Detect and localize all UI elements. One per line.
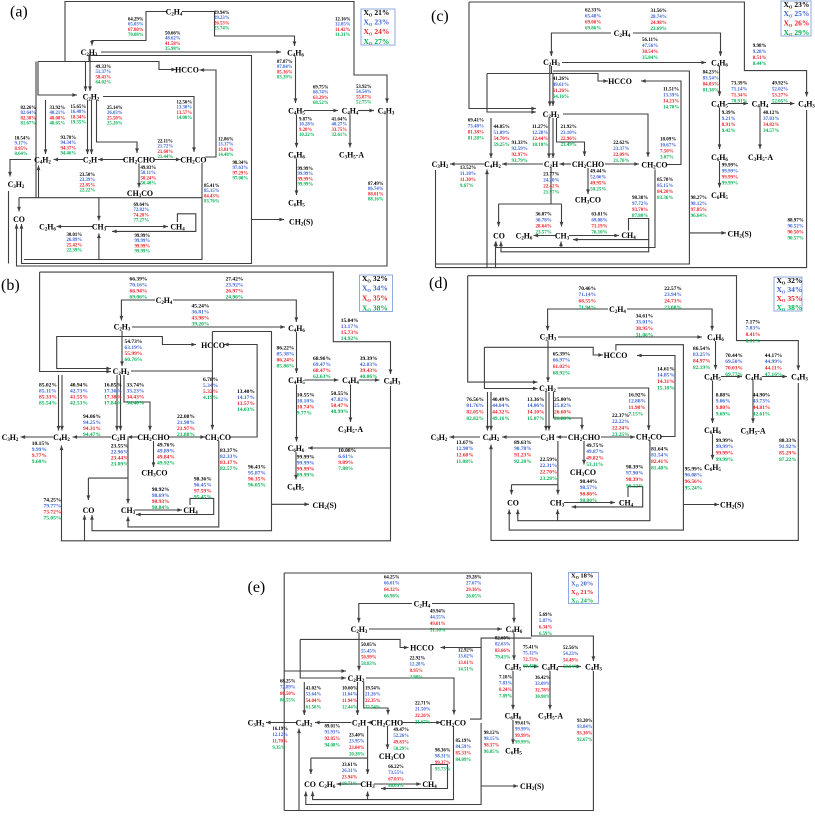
- svg-text:52.06%: 52.06%: [590, 176, 606, 181]
- svg-text:99.99%: 99.99%: [716, 451, 734, 457]
- svg-text:16.92%: 16.92%: [628, 392, 646, 398]
- svg-text:71.14%: 71.14%: [731, 88, 747, 93]
- svg-text:CH2​CO: CH2​CO: [641, 160, 667, 170]
- svg-text:99.99%: 99.99%: [722, 182, 738, 187]
- wire d6: [548, 309, 608, 331]
- svg-text:14.51%: 14.51%: [458, 668, 474, 673]
- wire b32: [296, 332, 298, 373]
- svg-text:83.25%: 83.25%: [693, 352, 711, 358]
- svg-text:40.12%: 40.12%: [763, 111, 779, 116]
- svg-text:44.99%: 44.99%: [765, 359, 783, 365]
- svg-text:25.82%: 25.82%: [554, 403, 572, 409]
- svg-text:69.08%: 69.08%: [591, 219, 607, 224]
- svg-text:69.86%: 69.86%: [585, 27, 601, 32]
- svg-text:CH4​: CH4​: [170, 222, 185, 232]
- svg-text:CH2​(S): CH2​(S): [289, 217, 313, 227]
- svg-text:XO​ 32%: XO​ 32%: [362, 274, 388, 283]
- svg-text:11.31%: 11.31%: [335, 33, 351, 38]
- wire c39: [771, 103, 795, 105]
- svg-text:CH3​CO: CH3​CO: [127, 189, 153, 199]
- svg-text:17.84%: 17.84%: [104, 400, 122, 406]
- svg-text:99.99%: 99.99%: [135, 239, 151, 244]
- svg-text:44.81%: 44.81%: [753, 405, 771, 411]
- svg-text:23.10%: 23.10%: [561, 131, 577, 136]
- wire c18: [552, 118, 554, 158]
- panel (b): [1, 272, 401, 541]
- wire e36: [512, 671, 514, 710]
- svg-text:13.39%: 13.39%: [663, 94, 679, 99]
- svg-text:14.31%: 14.31%: [657, 379, 675, 385]
- wire c19: [490, 118, 492, 158]
- svg-text:(b): (b): [1, 277, 20, 294]
- svg-text:CH4​: CH4​: [422, 780, 437, 790]
- svg-text:C4​H5​: C4​H5​: [704, 372, 721, 382]
- svg-text:72.73%: 72.73%: [523, 658, 539, 663]
- svg-text:14.85%: 14.85%: [657, 373, 675, 379]
- wire a39: [296, 159, 298, 196]
- svg-text:C3​H2​: C3​H2​: [8, 180, 25, 190]
- svg-text:98.12%: 98.12%: [484, 731, 500, 736]
- svg-text:26.60%: 26.60%: [554, 410, 572, 416]
- svg-text:15.07%: 15.07%: [527, 416, 545, 422]
- svg-text:85.33%: 85.33%: [456, 752, 472, 757]
- svg-text:CH2​CO: CH2​CO: [180, 155, 206, 165]
- svg-text:22.42%: 22.42%: [543, 185, 559, 190]
- svg-text:23.94%: 23.94%: [664, 292, 682, 298]
- wire d26: [557, 485, 559, 495]
- svg-text:12.98%: 12.98%: [456, 446, 474, 452]
- svg-text:11.70%: 11.70%: [272, 740, 288, 745]
- svg-text:64.32%: 64.32%: [384, 588, 400, 593]
- svg-text:56.11%: 56.11%: [642, 38, 658, 43]
- svg-text:XO​ 25%: XO​ 25%: [784, 9, 810, 18]
- wire b8: [121, 300, 155, 321]
- svg-text:C6​H6​: C6​H6​: [505, 711, 522, 721]
- wire e14: [481, 785, 518, 787]
- wire c12: [552, 74, 554, 107]
- svg-text:35.98%: 35.98%: [165, 47, 181, 52]
- svg-text:9.60%: 9.60%: [32, 459, 47, 465]
- svg-text:68.55%: 68.55%: [579, 299, 597, 305]
- wire c21: [557, 118, 585, 156]
- svg-text:XO​ 20%: XO​ 20%: [571, 581, 593, 588]
- wire e24: [367, 726, 369, 758]
- wire e35: [558, 666, 581, 668]
- svg-text:97.63%: 97.63%: [233, 166, 249, 171]
- svg-text:99.37%: 99.37%: [435, 761, 451, 766]
- svg-text:87.84%: 87.84%: [277, 65, 293, 70]
- wire e15: [366, 678, 454, 715]
- svg-text:24.96%: 24.96%: [226, 294, 244, 300]
- wire d16: [490, 392, 492, 431]
- svg-text:49.95%: 49.95%: [590, 182, 606, 187]
- svg-text:44.17%: 44.17%: [765, 353, 783, 359]
- wire b14: [131, 370, 212, 372]
- svg-text:96.85%: 96.85%: [484, 750, 500, 755]
- wire d3: [484, 347, 603, 355]
- svg-text:81.28%: 81.28%: [468, 137, 484, 142]
- svg-text:34.57%: 34.57%: [763, 129, 779, 134]
- svg-text:CH3​CO: CH3​CO: [379, 752, 405, 762]
- svg-text:65.39%: 65.39%: [553, 351, 571, 357]
- svg-text:62.63%: 62.63%: [313, 374, 331, 380]
- svg-text:33.61%: 33.61%: [342, 763, 358, 768]
- svg-text:9.80%: 9.80%: [716, 405, 731, 411]
- wire e1: [283, 573, 285, 811]
- wire a23: [54, 159, 84, 161]
- svg-text:XO​ 24%: XO​ 24%: [571, 597, 593, 604]
- wire d31: [715, 341, 717, 370]
- svg-text:23.40%: 23.40%: [349, 733, 365, 738]
- svg-text:9.28%: 9.28%: [753, 50, 767, 55]
- wire c40: [719, 108, 721, 150]
- wire a19: [87, 100, 89, 154]
- svg-text:81.38%: 81.38%: [468, 131, 484, 136]
- wire e38: [512, 720, 514, 744]
- svg-text:C4​H6​: C4​H6​: [288, 324, 305, 334]
- svg-text:82.63%: 82.63%: [495, 643, 511, 648]
- svg-text:CO: CO: [304, 780, 316, 789]
- svg-text:9.21%: 9.21%: [722, 117, 736, 122]
- wire c0: [469, 2, 807, 97]
- wire c3: [495, 242, 497, 268]
- svg-text:7.15%: 7.15%: [628, 412, 643, 418]
- svg-text:43.73%: 43.73%: [753, 399, 771, 405]
- svg-text:97.72%: 97.72%: [632, 202, 648, 207]
- wire b1: [40, 272, 111, 371]
- svg-text:23.08%: 23.08%: [664, 305, 682, 311]
- svg-text:C4​H2​: C4​H2​: [53, 433, 70, 443]
- svg-text:65.03%: 65.03%: [128, 23, 144, 28]
- svg-text:14.48%: 14.48%: [218, 153, 234, 158]
- wire d4: [484, 347, 537, 388]
- wire e12: [481, 638, 531, 647]
- wire c27: [550, 168, 552, 204]
- svg-text:(d): (d): [429, 275, 448, 292]
- svg-text:58.04%: 58.04%: [563, 665, 579, 670]
- panel (d): [429, 275, 808, 540]
- wire a32: [105, 226, 168, 228]
- svg-text:99.99%: 99.99%: [298, 172, 314, 177]
- svg-text:67.03%: 67.03%: [388, 778, 404, 783]
- svg-text:C2​H4​: C2​H4​: [614, 29, 631, 39]
- svg-text:81.38%: 81.38%: [703, 89, 719, 94]
- wire c16: [641, 81, 681, 165]
- wire b3: [62, 446, 391, 541]
- svg-text:CH2​CO: CH2​CO: [205, 433, 231, 443]
- wire d32: [721, 376, 742, 378]
- svg-text:CO: CO: [507, 498, 519, 507]
- svg-text:13.30%: 13.30%: [177, 106, 193, 111]
- svg-text:7.17%: 7.17%: [746, 319, 761, 325]
- svg-text:39.20%: 39.20%: [192, 321, 210, 327]
- svg-text:C6​H5​: C6​H5​: [704, 463, 721, 473]
- svg-text:22.09%: 22.09%: [613, 153, 629, 158]
- svg-text:44.04%: 44.04%: [492, 403, 510, 409]
- svg-text:59.25%: 59.25%: [494, 143, 510, 148]
- wire b22: [128, 436, 140, 438]
- svg-text:86.74%: 86.74%: [368, 187, 384, 192]
- svg-text:C6​H5​: C6​H5​: [505, 746, 522, 756]
- svg-text:HCCO: HCCO: [410, 643, 434, 652]
- svg-text:91.23%: 91.23%: [514, 453, 532, 459]
- wire d15: [487, 392, 489, 431]
- svg-text:75.41%: 75.41%: [523, 645, 539, 650]
- wire e29: [374, 783, 421, 785]
- wire e31: [313, 726, 454, 800]
- svg-text:73.39%: 73.39%: [731, 82, 747, 87]
- svg-text:98.31%: 98.31%: [435, 755, 451, 760]
- svg-text:13.67%: 13.67%: [456, 440, 474, 446]
- svg-text:8.24%: 8.24%: [499, 688, 512, 693]
- svg-text:C3​H5​-A: C3​H5​-A: [339, 150, 364, 160]
- svg-text:36.42%: 36.42%: [535, 676, 551, 681]
- svg-text:26.88%: 26.88%: [554, 416, 572, 422]
- svg-text:93.04%: 93.04%: [577, 725, 593, 730]
- wire b26: [127, 438, 129, 504]
- svg-text:90.52%: 90.52%: [788, 225, 804, 230]
- svg-text:58.83%: 58.83%: [361, 662, 377, 667]
- svg-text:C2​H2​: C2​H2​: [113, 367, 130, 377]
- wire a26: [10, 160, 31, 177]
- svg-text:13.62%: 13.62%: [458, 655, 474, 660]
- wire e9: [432, 604, 514, 623]
- wire b6: [57, 336, 111, 369]
- svg-text:69.77%: 69.77%: [725, 372, 743, 378]
- svg-text:7.89%: 7.89%: [499, 695, 512, 700]
- svg-text:C4​H4​: C4​H4​: [752, 99, 769, 109]
- svg-text:96.08%: 96.08%: [685, 473, 703, 479]
- wire c4: [435, 170, 437, 268]
- svg-text:50.99%: 50.99%: [361, 656, 377, 661]
- svg-text:99.99%: 99.99%: [716, 438, 734, 444]
- svg-text:84.09%: 84.09%: [456, 758, 472, 763]
- svg-text:XO​ 38%: XO​ 38%: [777, 303, 803, 312]
- wire c36: [501, 240, 649, 252]
- svg-text:C4​H2​: C4​H2​: [34, 155, 51, 165]
- svg-text:83.54%: 83.54%: [703, 77, 719, 82]
- wire d24: [512, 484, 558, 486]
- wire b36: [350, 385, 352, 423]
- svg-text:96.56%: 96.56%: [685, 479, 703, 485]
- svg-text:C6​H5​: C6​H5​: [288, 198, 305, 208]
- svg-text:84.20%: 84.20%: [657, 190, 673, 195]
- svg-text:80.69%: 80.69%: [388, 784, 404, 789]
- svg-text:99.61%: 99.61%: [515, 721, 531, 726]
- svg-text:(e): (e): [248, 579, 266, 596]
- svg-text:C2​H6​: C2​H6​: [319, 780, 336, 790]
- wire b12: [92, 332, 272, 531]
- svg-text:23.25%: 23.25%: [612, 432, 630, 438]
- svg-text:49.83%: 49.83%: [393, 741, 409, 746]
- svg-text:30.98%: 30.98%: [535, 695, 551, 700]
- svg-text:79.43%: 79.43%: [495, 656, 511, 661]
- svg-text:93.30%: 93.30%: [577, 732, 593, 737]
- svg-text:13.36%: 13.36%: [527, 397, 545, 403]
- svg-text:CH3​: CH3​: [550, 498, 565, 508]
- svg-text:49.61%: 49.61%: [553, 83, 569, 88]
- svg-text:98.84%: 98.84%: [152, 505, 170, 511]
- wire a13: [89, 56, 91, 92]
- wire d28: [572, 487, 643, 507]
- svg-text:63.81%: 63.81%: [591, 213, 607, 218]
- svg-text:21.70%: 21.70%: [613, 159, 629, 164]
- svg-text:41.02%: 41.02%: [306, 686, 322, 691]
- svg-text:2.98%: 2.98%: [410, 676, 423, 681]
- wire a10: [92, 12, 166, 46]
- svg-text:XO​ 18%: XO​ 18%: [571, 573, 593, 580]
- svg-text:14.61%: 14.61%: [657, 366, 675, 372]
- svg-text:52.75%: 52.75%: [356, 101, 372, 106]
- svg-text:21.97%: 21.97%: [543, 191, 559, 196]
- wire d23: [557, 441, 559, 485]
- svg-text:26.89%: 26.89%: [67, 238, 83, 243]
- wire e4: [298, 729, 300, 811]
- svg-text:23.39%: 23.39%: [80, 178, 96, 183]
- wire e23: [387, 726, 389, 749]
- svg-text:XO​ 35%: XO​ 35%: [777, 294, 803, 303]
- svg-text:C4​H6​: C4​H6​: [287, 48, 304, 58]
- svg-text:51.16%: 51.16%: [430, 629, 446, 634]
- svg-text:CH3​: CH3​: [92, 222, 107, 232]
- svg-text:22.57%: 22.57%: [664, 286, 682, 292]
- svg-text:83.36%: 83.36%: [657, 196, 673, 201]
- wire b4: [84, 515, 86, 541]
- svg-text:23.37%: 23.37%: [613, 147, 629, 152]
- svg-text:24.98%: 24.98%: [651, 21, 667, 26]
- svg-text:28.64%: 28.64%: [536, 225, 552, 230]
- svg-text:68.25%: 68.25%: [280, 679, 296, 684]
- svg-text:8.44%: 8.44%: [753, 62, 767, 67]
- wire e27: [367, 758, 369, 774]
- wire b27: [88, 477, 128, 479]
- svg-text:66.01%: 66.01%: [384, 582, 400, 587]
- legend box panel (a): [361, 9, 395, 45]
- svg-text:54.49%: 54.49%: [563, 659, 579, 664]
- wire c38: [728, 103, 749, 105]
- svg-text:66.98%: 66.98%: [384, 595, 400, 600]
- svg-text:CH3​CO: CH3​CO: [570, 468, 596, 478]
- svg-text:XO​ 21%: XO​ 21%: [364, 8, 390, 17]
- svg-text:99.99%: 99.99%: [716, 457, 734, 463]
- wire e28: [337, 783, 362, 785]
- svg-text:8.64%: 8.64%: [15, 152, 28, 157]
- wire b13: [272, 503, 310, 505]
- svg-text:CH4​: CH4​: [621, 231, 636, 241]
- svg-text:44.05%: 44.05%: [494, 125, 510, 130]
- svg-text:28.74%: 28.74%: [651, 15, 667, 20]
- svg-text:C3​H2​: C3​H2​: [2, 433, 19, 443]
- wire a9: [98, 198, 100, 221]
- svg-text:99.99%: 99.99%: [722, 176, 738, 181]
- svg-text:71.94%: 71.94%: [579, 305, 597, 311]
- wire a2: [88, 55, 90, 62]
- svg-text:85.15%: 85.15%: [657, 184, 673, 189]
- svg-text:70.46%: 70.46%: [579, 286, 597, 292]
- svg-text:C2​H6​: C2​H6​: [39, 222, 56, 232]
- svg-text:82.19%: 82.19%: [693, 365, 711, 371]
- svg-text:69.43%: 69.43%: [523, 665, 539, 670]
- wire e20: [368, 722, 372, 724]
- svg-text:49.82%: 49.82%: [586, 456, 604, 462]
- svg-text:11.08%: 11.08%: [456, 459, 473, 465]
- wire a1: [17, 114, 388, 266]
- svg-text:C4​H6​: C4​H6​: [506, 625, 523, 635]
- svg-text:C4​H4​: C4​H4​: [542, 662, 559, 672]
- svg-text:98.80%: 98.80%: [580, 498, 598, 504]
- svg-text:82.64%: 82.64%: [21, 111, 37, 116]
- svg-text:92.67%: 92.67%: [577, 738, 593, 743]
- svg-text:93.73%: 93.73%: [435, 768, 451, 773]
- wire b5: [57, 337, 196, 345]
- svg-text:69.06%: 69.06%: [585, 21, 601, 26]
- svg-text:23.28%: 23.28%: [540, 476, 558, 482]
- svg-text:CH3​: CH3​: [121, 506, 136, 516]
- svg-text:10.22%: 10.22%: [299, 133, 315, 138]
- svg-text:8.91%: 8.91%: [722, 123, 736, 128]
- svg-text:10.18%: 10.18%: [532, 143, 548, 148]
- svg-text:99.99%: 99.99%: [515, 734, 531, 739]
- svg-text:94.47%: 94.47%: [83, 432, 101, 438]
- svg-text:22.71%: 22.71%: [415, 701, 431, 706]
- svg-text:50.40%: 50.40%: [141, 182, 157, 187]
- svg-text:50.05%: 50.05%: [361, 643, 377, 648]
- svg-text:C6​H6​: C6​H6​: [288, 150, 305, 160]
- svg-text:C2​H3​: C2​H3​: [351, 625, 368, 635]
- wire c33: [573, 219, 649, 240]
- svg-text:HCCO: HCCO: [201, 341, 225, 350]
- wire d9: [637, 356, 675, 437]
- svg-text:70.91%: 70.91%: [731, 100, 747, 105]
- svg-text:84.03%: 84.03%: [703, 83, 719, 88]
- svg-text:76.10%: 76.10%: [591, 231, 607, 236]
- wire d25: [511, 485, 513, 495]
- wire a30: [98, 234, 100, 260]
- svg-text:8.88%: 8.88%: [716, 392, 731, 398]
- wire b7: [121, 331, 123, 366]
- wire e32: [367, 792, 369, 800]
- svg-text:22.31%: 22.31%: [540, 463, 558, 469]
- svg-text:42.61%: 42.61%: [753, 412, 771, 418]
- svg-text:82.57%: 82.57%: [220, 466, 238, 472]
- svg-text:85.54%: 85.54%: [39, 400, 57, 406]
- svg-text:62.33%: 62.33%: [585, 9, 601, 14]
- svg-text:C3​H5​-A: C3​H5​-A: [740, 426, 765, 436]
- svg-text:93.20%: 93.20%: [577, 719, 593, 724]
- wire a8: [18, 198, 20, 212]
- wire d10: [509, 345, 683, 530]
- svg-text:29.28%: 29.28%: [466, 575, 482, 580]
- wire a28: [138, 164, 140, 188]
- svg-text:48.99%: 48.99%: [331, 409, 349, 415]
- svg-text:9.77%: 9.77%: [297, 410, 312, 416]
- svg-text:86.54%: 86.54%: [693, 346, 711, 352]
- svg-text:69.41%: 69.41%: [468, 119, 484, 124]
- wire b31: [128, 441, 219, 527]
- svg-text:12.28%: 12.28%: [532, 131, 548, 136]
- svg-text:7.50%: 7.50%: [660, 150, 674, 155]
- svg-text:CH3​: CH3​: [555, 231, 570, 241]
- svg-text:XO​ 35%: XO​ 35%: [362, 294, 388, 303]
- panel (e): [248, 573, 603, 811]
- wire b16: [116, 375, 118, 431]
- svg-text:C3​H5​-A: C3​H5​-A: [748, 153, 773, 163]
- svg-text:C2​H4​: C2​H4​: [156, 296, 173, 306]
- svg-text:22.54%: 22.54%: [365, 706, 381, 711]
- svg-text:47.16%: 47.16%: [765, 372, 783, 378]
- svg-text:83.76%: 83.76%: [204, 200, 220, 205]
- wire b35: [296, 385, 298, 442]
